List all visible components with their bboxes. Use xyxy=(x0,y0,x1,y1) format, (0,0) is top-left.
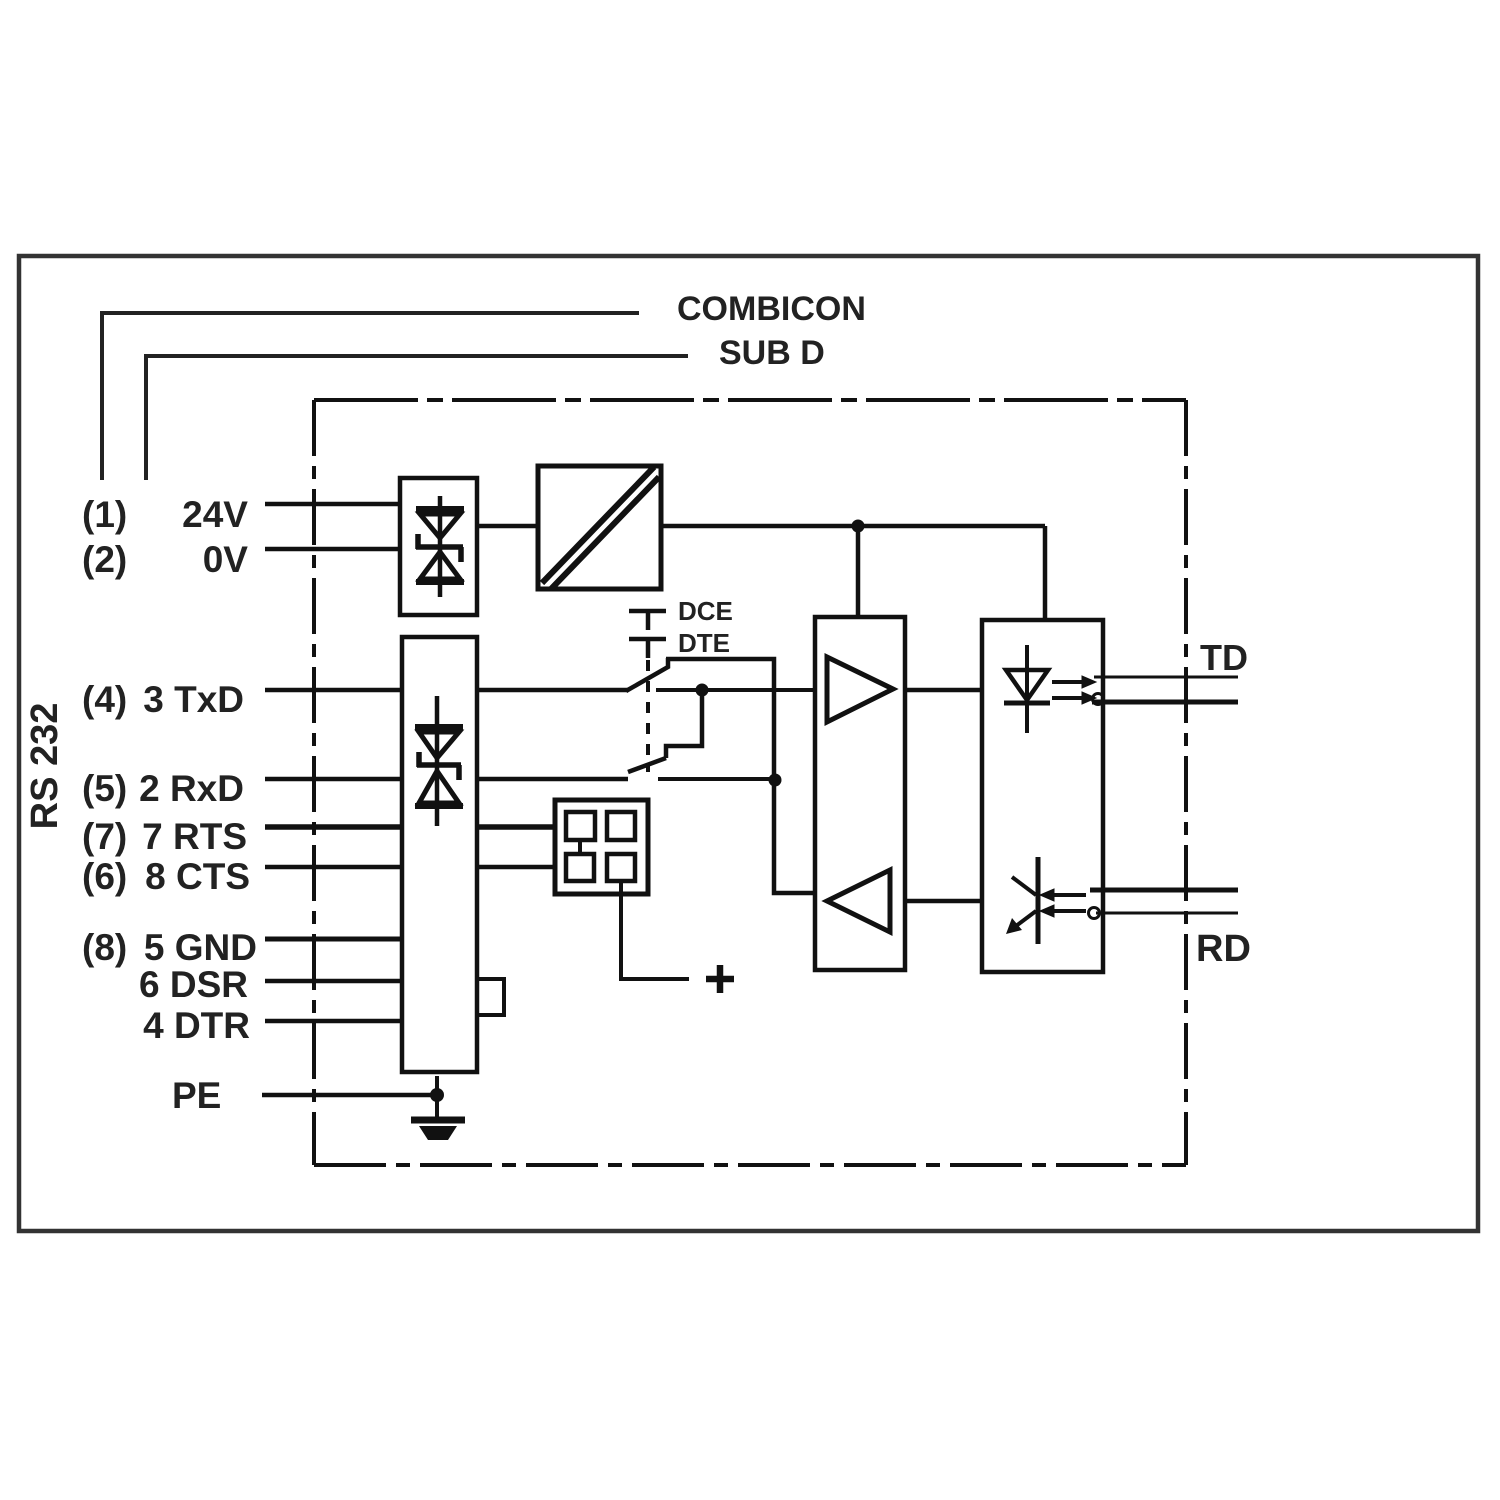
node TxD junction xyxy=(696,684,709,697)
crossover path upper xyxy=(666,659,815,893)
opto RD light arrows xyxy=(1040,889,1086,917)
svg-text:(5): (5) xyxy=(82,768,127,809)
opto TD receiver hook xyxy=(1093,694,1104,705)
wire jumper to plus xyxy=(621,881,689,979)
svg-text:(2): (2) xyxy=(82,539,127,580)
wire RD pair xyxy=(1090,888,1238,893)
svg-text:(4): (4) xyxy=(82,679,127,720)
wire RTS right xyxy=(477,824,555,830)
svg-text:RD: RD xyxy=(1196,928,1251,970)
svg-text:(8): (8) xyxy=(82,927,127,968)
switch position mark T (DCE) xyxy=(629,611,666,630)
buffer U2 receive triangle xyxy=(827,870,890,932)
wire opto to buffer (RD) xyxy=(905,899,982,904)
wire buffer to opto (TD) xyxy=(905,688,982,693)
svg-text:COMBICON: COMBICON xyxy=(677,290,866,328)
svg-text:4 DTR: 4 DTR xyxy=(143,1005,250,1046)
opto RD receiver hook xyxy=(1089,908,1100,919)
outer enclosure box xyxy=(19,256,1478,1231)
switch position mark T (DTE) xyxy=(629,639,666,658)
wire DTR xyxy=(265,1019,401,1024)
plus symbol xyxy=(706,965,734,993)
wire F1 to DC/DC xyxy=(477,524,538,529)
wire TxD straight to buffer xyxy=(656,688,815,692)
svg-text:5 GND: 5 GND xyxy=(144,927,257,968)
svg-text:PE: PE xyxy=(172,1075,221,1116)
wire DC/DC output rail xyxy=(661,526,1045,620)
wire PE xyxy=(262,1093,437,1098)
module boundary dash-dot box xyxy=(314,400,1186,1165)
node supply junction xyxy=(852,520,865,533)
svg-text:0V: 0V xyxy=(203,539,249,580)
wire 0V xyxy=(265,547,400,552)
wire RxD straight xyxy=(658,777,775,781)
switch link dashed line xyxy=(646,660,650,772)
jumper link xyxy=(578,840,582,854)
buffer box U2 xyxy=(815,617,905,970)
surge suppressor F1 TVS symbol xyxy=(416,496,464,597)
svg-text:(7): (7) xyxy=(82,816,127,857)
svg-text:2 RxD: 2 RxD xyxy=(139,768,244,809)
wire GND xyxy=(265,937,401,942)
DC/DC converter box xyxy=(538,466,661,589)
switch S1 upper lever xyxy=(626,658,668,691)
svg-text:(1): (1) xyxy=(82,494,127,535)
svg-text:TD: TD xyxy=(1200,637,1248,678)
wire F2 bottom stem xyxy=(435,1076,439,1095)
jumper block squares xyxy=(566,812,635,881)
optocoupler box U3 xyxy=(982,620,1103,972)
node PE junction xyxy=(430,1088,444,1102)
COMBICON leader line xyxy=(102,313,639,480)
wire DSR xyxy=(265,979,401,984)
svg-text:6 DSR: 6 DSR xyxy=(139,964,248,1005)
wire RTS left xyxy=(265,824,402,830)
wire RxD left xyxy=(265,777,402,782)
switch S1 lower lever xyxy=(628,758,666,772)
svg-text:24V: 24V xyxy=(182,494,248,535)
optocoupler phototransistor (RD channel) xyxy=(1012,857,1038,944)
wire TxD middle xyxy=(477,688,628,693)
surge suppressor F2 box (signal) xyxy=(402,637,477,1072)
wire RxD middle xyxy=(477,777,628,782)
crossover path lower xyxy=(666,690,702,758)
surge suppressor F2 TVS symbol xyxy=(415,696,463,826)
jumper block J1 box xyxy=(555,800,648,894)
SUB D leader line xyxy=(146,356,688,480)
svg-text:DCE: DCE xyxy=(678,596,733,626)
wire 24V xyxy=(265,502,400,507)
wire CTS right xyxy=(477,865,555,870)
F2 side notch xyxy=(477,979,504,1015)
optocoupler LED (TD channel) xyxy=(1004,645,1050,733)
ground symbol xyxy=(435,1095,439,1118)
buffer U2 transmit triangle xyxy=(827,657,893,722)
wire CTS left xyxy=(265,865,402,870)
wire TD pair xyxy=(1094,676,1238,679)
svg-text:SUB D: SUB D xyxy=(719,334,825,372)
svg-text:3 TxD: 3 TxD xyxy=(143,679,244,720)
DC/DC converter diagonal band xyxy=(542,467,659,589)
svg-text:(6): (6) xyxy=(82,856,127,897)
opto TD light arrows xyxy=(1052,676,1096,704)
surge suppressor F1 box (power) xyxy=(400,478,477,615)
svg-text:7 RTS: 7 RTS xyxy=(142,816,247,857)
svg-text:8 CTS: 8 CTS xyxy=(145,856,250,897)
svg-text:RS 232: RS 232 xyxy=(24,703,66,830)
node RxD crossover junction xyxy=(769,774,782,787)
wire TxD left xyxy=(265,688,402,693)
svg-text:DTE: DTE xyxy=(678,628,730,658)
